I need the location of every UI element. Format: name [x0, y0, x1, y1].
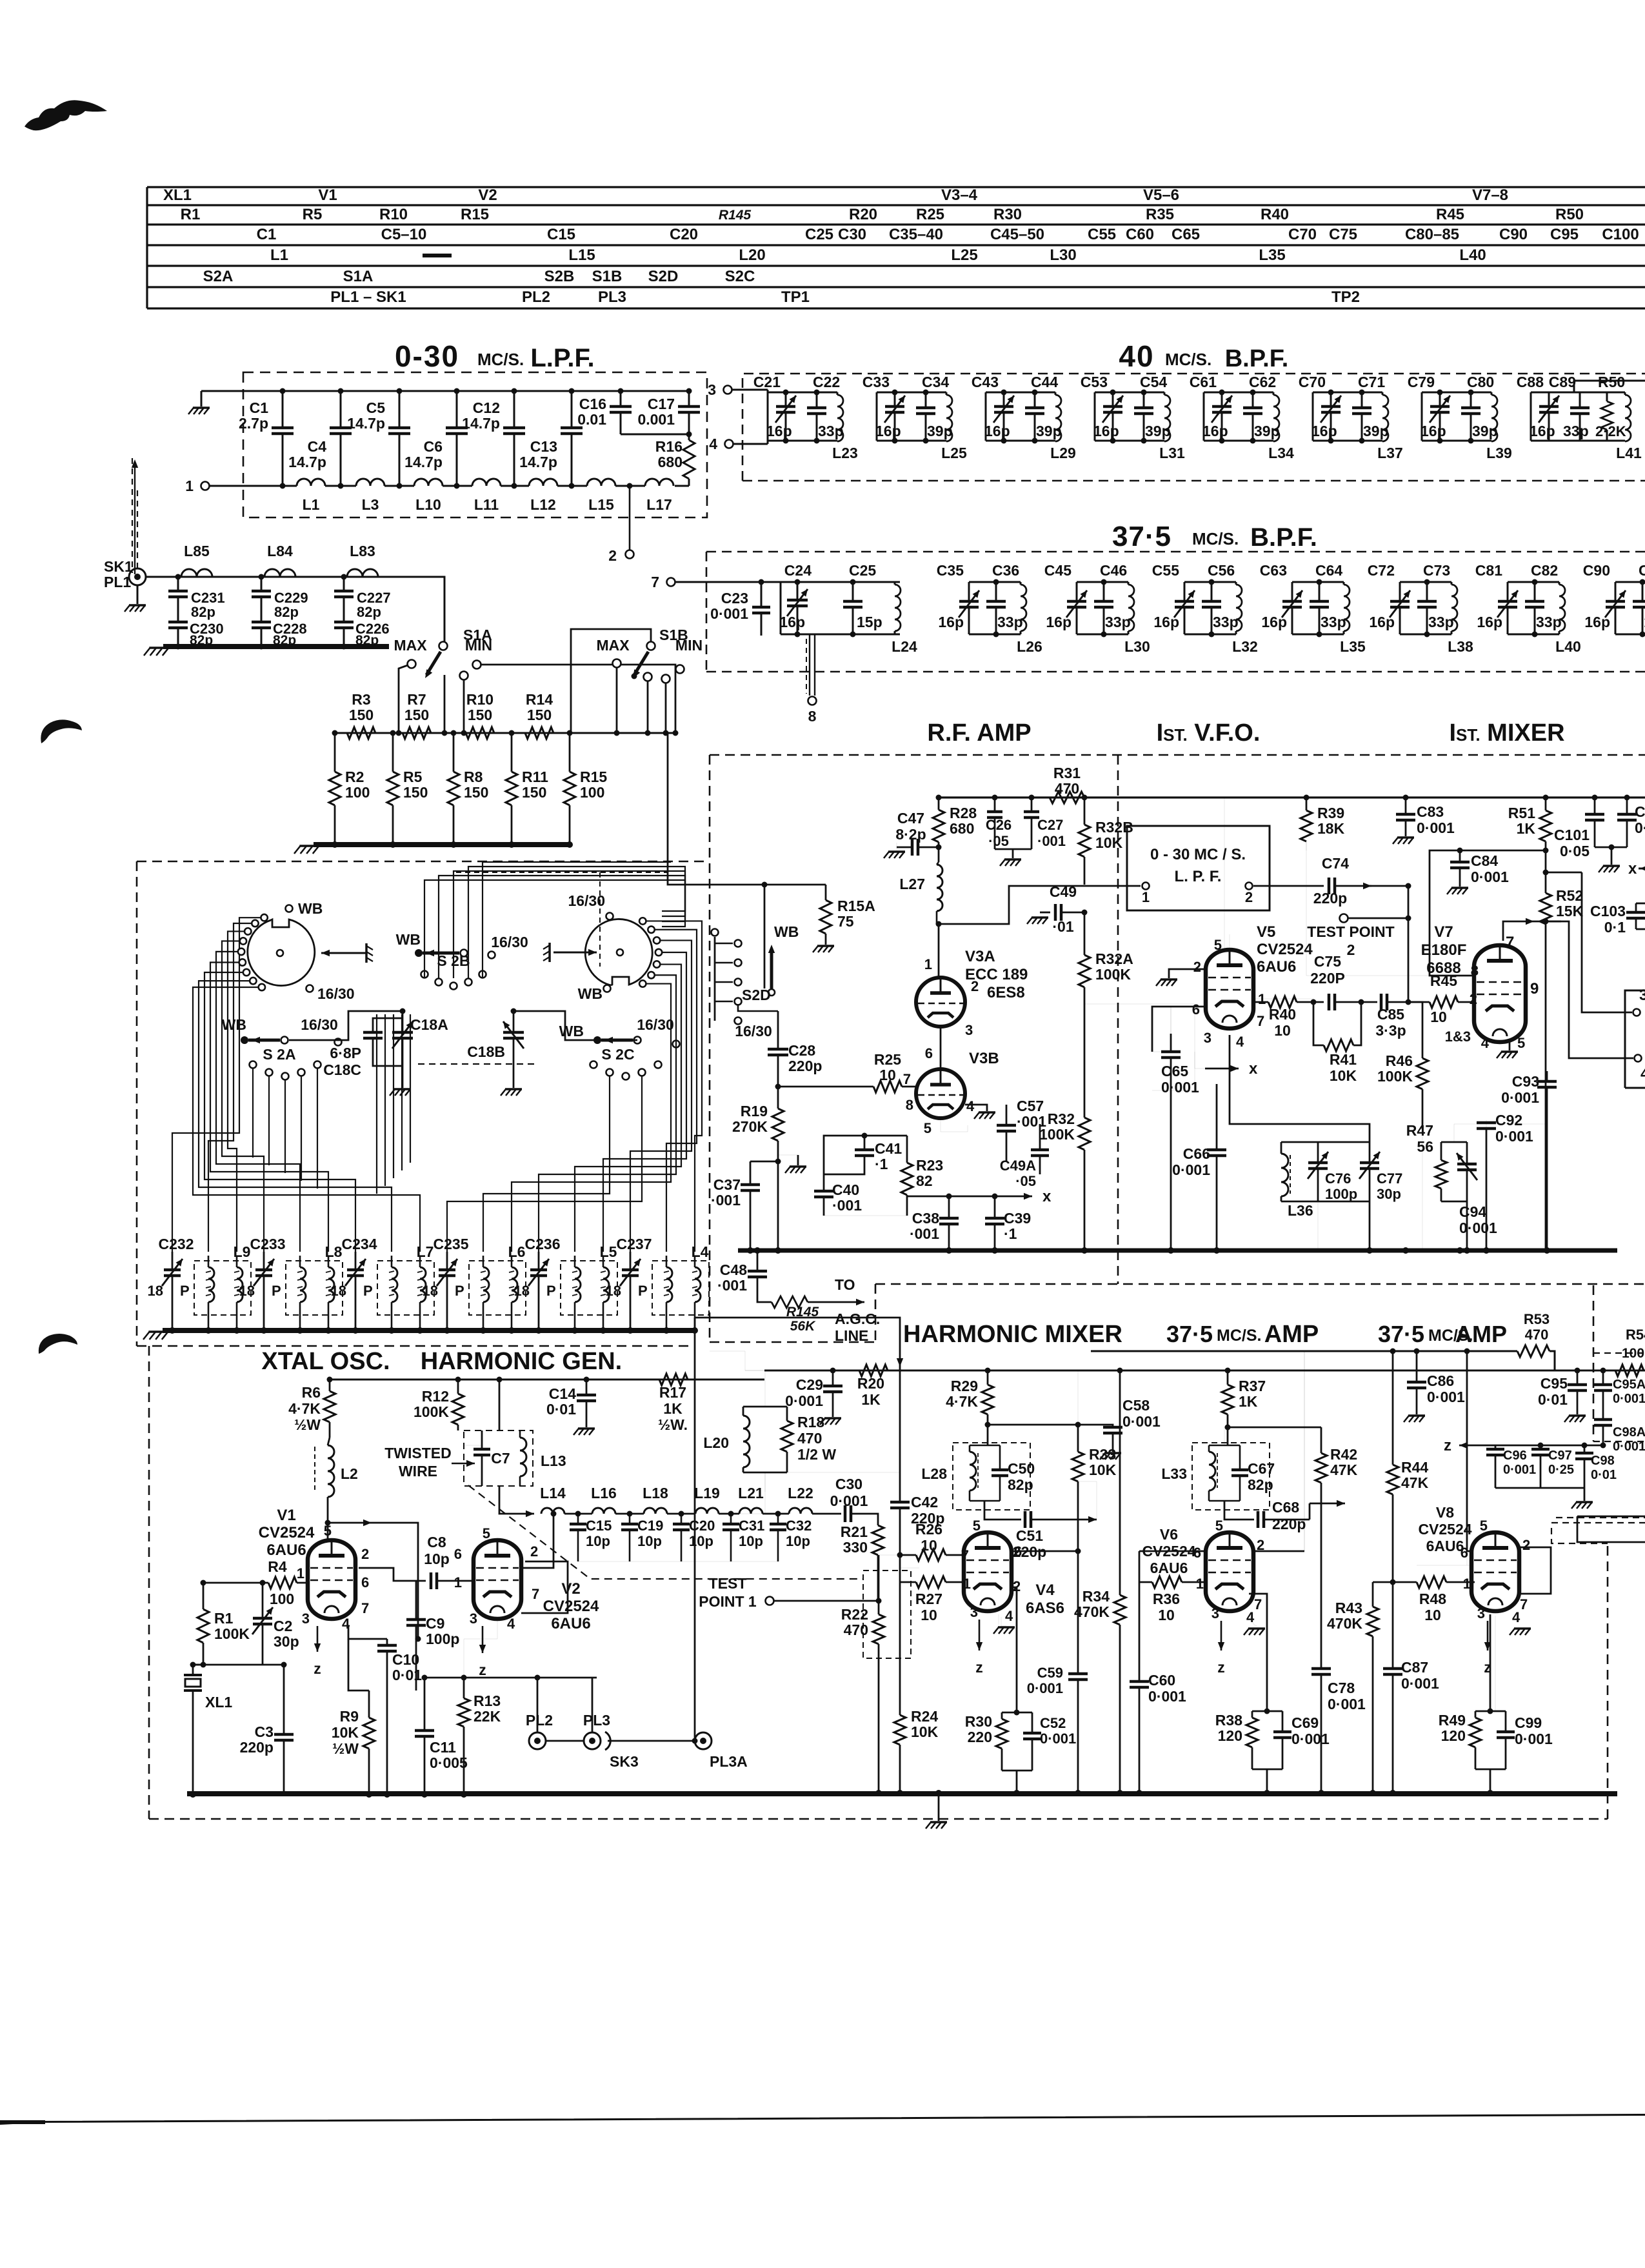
svg-text:E180F: E180F	[1421, 941, 1467, 959]
svg-text:0 - 30 MC / S.: 0 - 30 MC / S.	[1150, 846, 1246, 863]
svg-text:C58: C58	[1122, 1397, 1150, 1414]
svg-text:C51: C51	[1016, 1527, 1043, 1544]
capacitor C95 0.01	[1577, 1370, 1579, 1383]
wire C68 arrow	[1264, 1519, 1310, 1521]
wire R29 to L28 box and C58	[987, 1425, 989, 1445]
svg-text:16p: 16p	[1369, 614, 1395, 630]
svg-text:C49: C49	[1050, 883, 1077, 900]
wire xtal to ground bus	[192, 1736, 194, 1794]
svg-text:L36: L36	[1288, 1202, 1313, 1219]
S1B spare contacts	[644, 673, 652, 681]
svg-text:C88: C88	[1517, 374, 1544, 390]
LPF top bus wire	[201, 390, 689, 392]
svg-text:C35–40: C35–40	[889, 226, 943, 243]
svg-text:37·5: 37·5	[1378, 1321, 1424, 1347]
svg-text:·001: ·001	[832, 1197, 862, 1214]
svg-text:100K: 100K	[1377, 1068, 1413, 1085]
svg-text:150: 150	[404, 707, 429, 723]
svg-text:10: 10	[879, 1067, 896, 1083]
svg-text:ECC 189: ECC 189	[965, 966, 1028, 983]
wire V4 pin2 to R30	[1010, 1587, 1017, 1712]
svg-text:C39: C39	[1004, 1210, 1031, 1227]
capacitor C98A 0.001	[1594, 1418, 1612, 1421]
resistor R16 680	[683, 440, 695, 479]
lower ground bus	[710, 1791, 1617, 1796]
svg-text:330: 330	[843, 1539, 868, 1556]
margin crescent mark 1	[41, 719, 82, 743]
svg-text:6AU6: 6AU6	[1426, 1538, 1464, 1554]
svg-text:C82: C82	[1531, 562, 1558, 579]
trimmer capacitor C234 18P	[355, 1252, 357, 1270]
svg-text:PL2: PL2	[522, 288, 550, 306]
wire V6 pin6 left	[1139, 1550, 1205, 1552]
svg-text:C45–50: C45–50	[990, 226, 1044, 243]
wire V3B grid R25	[902, 1086, 917, 1088]
svg-text:150: 150	[527, 707, 552, 723]
svg-text:10K: 10K	[1330, 1067, 1357, 1084]
resistor R40 10	[1254, 1001, 1268, 1003]
capacitor C29 0.001	[832, 1370, 834, 1385]
svg-text:R30: R30	[993, 206, 1022, 223]
svg-text:9: 9	[1530, 980, 1539, 998]
resistor R32A 100K	[1084, 912, 1086, 955]
svg-text:AMP: AMP	[1455, 1321, 1507, 1347]
37.5MC BPF cell C81/C82/L40	[1508, 581, 1559, 583]
svg-text:C57: C57	[1017, 1098, 1044, 1114]
svg-text:L30: L30	[1124, 638, 1150, 655]
svg-text:C55: C55	[1088, 226, 1116, 243]
svg-text:4: 4	[1640, 1065, 1645, 1083]
svg-text:0·001: 0·001	[1417, 819, 1455, 836]
svg-text:7: 7	[1506, 934, 1514, 951]
svg-text:1: 1	[924, 956, 932, 972]
capacitor C28 220p	[777, 1011, 779, 1048]
svg-text:1: 1	[1196, 1576, 1204, 1592]
svg-text:R15: R15	[461, 206, 489, 223]
svg-text:C50: C50	[1008, 1460, 1035, 1477]
ground left of V5	[1169, 969, 1206, 978]
40MC BPF cell C88/C89/R50/L41	[1531, 392, 1625, 394]
svg-text:C18C: C18C	[323, 1061, 361, 1078]
svg-text:120: 120	[1218, 1727, 1242, 1744]
capacitor C68 220p	[1224, 1501, 1254, 1520]
wideband switch unit dashed enclosure	[137, 861, 707, 863]
svg-text:C4: C4	[308, 438, 327, 455]
trimmer capacitor C233 18P	[263, 1252, 265, 1270]
ground under C95	[1569, 1414, 1586, 1417]
capacitor C92 0.001	[1486, 1120, 1487, 1134]
resistor R41 10K loop	[1313, 1002, 1324, 1045]
tube V8 CV2524 6AU6	[1471, 1532, 1519, 1611]
svg-text:L18: L18	[643, 1485, 668, 1501]
svg-text:TP2: TP2	[1331, 288, 1360, 306]
svg-text:33p: 33p	[1321, 614, 1346, 630]
svg-text:0·001: 0·001	[1501, 1089, 1539, 1106]
wire bundle middle verticals	[376, 1014, 377, 1194]
svg-text:C40: C40	[832, 1181, 859, 1198]
37.5MC BPF cell C55/C56/L32	[1184, 581, 1236, 583]
svg-text:XL1: XL1	[163, 186, 192, 204]
svg-text:R32A: R32A	[1095, 950, 1133, 967]
capacitor C7	[481, 1430, 483, 1448]
capacitor C19 10p	[629, 1514, 631, 1523]
svg-text:C70: C70	[1288, 226, 1317, 243]
svg-text:82p: 82p	[357, 604, 381, 620]
svg-text:10p: 10p	[739, 1533, 763, 1549]
connector PL3A	[695, 1732, 712, 1749]
LPF box terminal 2	[1246, 883, 1253, 890]
svg-text:C32: C32	[786, 1518, 812, 1534]
svg-text:3·3p: 3·3p	[1375, 1022, 1406, 1039]
svg-text:C16: C16	[579, 396, 606, 412]
svg-text:R145: R145	[719, 208, 752, 223]
svg-text:0·001: 0·001	[830, 1492, 868, 1509]
C40/C41/R23 loop wires	[824, 1136, 907, 1174]
svg-text:C81: C81	[1475, 562, 1502, 579]
svg-text:14.7p: 14.7p	[347, 415, 385, 432]
svg-text:C75: C75	[1314, 953, 1341, 970]
inductor L3	[356, 479, 384, 486]
capacitor C23 0.001	[761, 582, 763, 607]
wire hook over last cell	[1574, 381, 1645, 392]
svg-text:5: 5	[973, 1518, 981, 1534]
svg-text:3: 3	[1211, 1605, 1219, 1621]
resistor R3 150	[347, 727, 375, 739]
inductor pair L4 dashed box	[652, 1261, 709, 1315]
svg-text:C65: C65	[1161, 1063, 1188, 1079]
capacitor C10 0.01	[386, 1639, 388, 1644]
svg-text:C93: C93	[1512, 1073, 1539, 1090]
svg-text:C84: C84	[1471, 852, 1498, 869]
tube V4 6AS6	[964, 1532, 1012, 1611]
resistor R29 4.7K	[982, 1385, 993, 1414]
svg-text:C49A: C49A	[1000, 1158, 1036, 1174]
svg-text:C67: C67	[1248, 1460, 1275, 1477]
wire S1B to BPF feed	[667, 733, 669, 859]
resistor R7 150	[403, 727, 431, 739]
svg-text:C3: C3	[255, 1723, 274, 1740]
svg-text:L17: L17	[646, 496, 672, 513]
svg-text:L10: L10	[415, 496, 441, 513]
svg-text:PL1: PL1	[104, 574, 131, 590]
resistor R23 82	[906, 1136, 908, 1163]
resistor R15 100	[569, 733, 571, 772]
wire	[675, 485, 689, 487]
svg-text:8: 8	[906, 1097, 913, 1113]
capacitor C5 14.7p	[399, 391, 401, 428]
37.5 BPF first cell C24/C25/L24	[781, 581, 900, 583]
svg-text:V6: V6	[1160, 1526, 1178, 1543]
capacitor C16 0.01	[620, 391, 622, 406]
L33 C67 dashed box	[1192, 1443, 1270, 1510]
svg-text:S2D: S2D	[648, 268, 679, 285]
svg-text:L41: L41	[1616, 445, 1642, 461]
svg-text:10p: 10p	[786, 1533, 810, 1549]
svg-text:C63: C63	[1260, 562, 1287, 579]
svg-text:100K: 100K	[1095, 966, 1131, 983]
svg-text:0·001: 0·001	[1401, 1675, 1439, 1692]
svg-text:C236: C236	[525, 1236, 561, 1252]
svg-text:L5: L5	[600, 1243, 617, 1260]
svg-text:·05: ·05	[1015, 1173, 1036, 1189]
rotary switch wafer 2 (16/30-WB)	[585, 919, 652, 985]
svg-text:1: 1	[454, 1574, 462, 1591]
wire C28 top to S2D wire	[738, 1004, 778, 1011]
resistor R17 1K 1/2W in rail	[659, 1374, 688, 1385]
svg-text:220p: 220p	[1272, 1516, 1306, 1532]
V8 cathode R49/C99	[1495, 1616, 1496, 1711]
capacitor C42 220p	[899, 1370, 901, 1381]
crystal XL1	[192, 1665, 194, 1675]
svg-text:150: 150	[403, 784, 428, 801]
svg-text:2: 2	[608, 547, 617, 564]
resistor R25 10	[873, 1081, 902, 1092]
svg-text:10: 10	[921, 1537, 937, 1554]
svg-text:C30: C30	[835, 1476, 862, 1492]
svg-text:C62: C62	[1249, 374, 1276, 390]
svg-text:L22: L22	[788, 1485, 813, 1501]
capacitor C65 0.001	[1170, 1007, 1171, 1049]
svg-text:C41: C41	[875, 1140, 902, 1157]
wire rail to C7 box	[499, 1380, 501, 1430]
harmonic rail	[764, 1370, 1645, 1372]
svg-text:C15: C15	[547, 226, 575, 243]
svg-text:16p: 16p	[984, 423, 1010, 439]
resistor R46 100K	[1422, 1045, 1424, 1058]
svg-text:C15: C15	[586, 1518, 612, 1534]
svg-text:18: 18	[331, 1283, 346, 1299]
ground under C83	[1397, 836, 1414, 839]
svg-text:4: 4	[507, 1616, 515, 1632]
resistor R20 1K in rail	[859, 1365, 888, 1376]
wafer2 WB contact	[604, 985, 611, 992]
svg-text:V8: V8	[1436, 1504, 1454, 1521]
xtal section ground bus	[187, 1791, 711, 1796]
row2 WB arrow left (S2A)	[241, 1036, 248, 1044]
svg-text:3: 3	[302, 1611, 310, 1627]
capacitor C48 .001	[757, 1250, 759, 1270]
svg-text:R10: R10	[466, 691, 494, 708]
svg-text:8: 8	[808, 708, 817, 725]
svg-text:2: 2	[361, 1546, 369, 1562]
inductor L83	[347, 569, 378, 577]
svg-text:10p: 10p	[586, 1533, 610, 1549]
svg-text:6: 6	[1192, 1001, 1200, 1018]
wafer1 16/30 contact	[306, 985, 314, 992]
svg-text:MC/S.: MC/S.	[1217, 1327, 1261, 1345]
wire V5 plate right	[1254, 999, 1313, 1002]
svg-text:0·01: 0·01	[546, 1401, 576, 1418]
svg-text:30p: 30p	[274, 1633, 299, 1650]
svg-text:R1: R1	[214, 1610, 234, 1627]
svg-text:A.G.C.: A.G.C.	[835, 1310, 880, 1327]
svg-text:16p: 16p	[1093, 423, 1119, 439]
svg-text:1: 1	[1142, 889, 1150, 905]
svg-text:2.7p: 2.7p	[239, 415, 268, 432]
svg-text:C17: C17	[648, 396, 675, 412]
resistor R2 100	[334, 733, 336, 772]
output twisted pair dashes	[1551, 1522, 1645, 1523]
svg-text:5: 5	[324, 1523, 332, 1539]
wire C85 to R45	[1387, 1001, 1430, 1003]
svg-text:P: P	[455, 1283, 464, 1299]
unit enclosure dashed bottom xtal	[137, 1345, 695, 1347]
wire V1 pin7/C10 node	[348, 1639, 369, 1691]
x arrow cathode	[949, 1196, 995, 1198]
twisted pair to terminal 8	[809, 634, 810, 696]
capacitor C96 0.001	[1495, 1445, 1497, 1448]
svg-text:S2B: S2B	[544, 268, 575, 285]
svg-text:C73: C73	[1423, 562, 1450, 579]
capacitor C6 14.7p	[456, 391, 458, 428]
svg-text:47K: 47K	[1330, 1461, 1358, 1478]
inductor pair L5 dashed box	[561, 1261, 617, 1315]
svg-text:10: 10	[1158, 1607, 1175, 1623]
svg-text:L34: L34	[1268, 445, 1294, 461]
svg-text:33p: 33p	[1213, 614, 1239, 630]
svg-text:·001: ·001	[711, 1192, 741, 1209]
capacitor C26 .05	[994, 798, 996, 810]
svg-text:33p: 33p	[1428, 614, 1454, 630]
reference box 0-30 MC/S LPF	[1127, 826, 1270, 910]
svg-text:L2: L2	[341, 1465, 358, 1482]
svg-text:100p: 100p	[1325, 1186, 1357, 1202]
wire to 2nd mixer terminal 3	[1582, 872, 1632, 1012]
svg-text:6688: 6688	[1426, 959, 1461, 977]
margin crescent mark 2	[39, 1334, 77, 1354]
svg-text:L1: L1	[270, 246, 288, 264]
svg-text:2: 2	[1347, 941, 1355, 958]
capacitor C57 .001	[1006, 1105, 1008, 1124]
wire R39 down	[1306, 841, 1430, 976]
wire PL2 to PL3	[546, 1740, 584, 1742]
antenna input dashed lead	[132, 458, 133, 573]
svg-text:½W: ½W	[332, 1740, 359, 1757]
resistor R32 100K	[1084, 1004, 1086, 1118]
trimmer capacitor C235 18P	[446, 1252, 448, 1270]
svg-text:C64: C64	[1315, 562, 1342, 579]
resistor R51 1K	[1545, 798, 1547, 810]
svg-text:15p: 15p	[857, 614, 882, 630]
V6 z arrow	[1221, 1621, 1222, 1651]
svg-text:C79: C79	[1408, 374, 1435, 390]
wire C84 to V7 pin8	[1430, 850, 1476, 976]
svg-text:1K: 1K	[861, 1391, 881, 1408]
svg-text:680: 680	[658, 454, 683, 470]
svg-text:16p: 16p	[1153, 614, 1179, 630]
svg-text:39p: 39p	[1472, 423, 1498, 439]
svg-text:C74: C74	[1322, 855, 1349, 872]
inductor L21	[739, 1508, 763, 1514]
svg-text:C9: C9	[426, 1615, 444, 1632]
inductor pair L9 dashed box	[194, 1261, 251, 1315]
inductor L12	[529, 479, 557, 486]
svg-text:C235: C235	[434, 1236, 469, 1252]
svg-text:C96: C96	[1503, 1449, 1527, 1463]
svg-text:100K: 100K	[414, 1403, 449, 1420]
wire C84 to R51/R52	[1460, 850, 1546, 862]
resistor R145 56K to AGC	[757, 1297, 772, 1302]
capacitor C84 0.001	[1459, 861, 1461, 875]
svg-text:½W: ½W	[294, 1416, 321, 1433]
wire plate node to LPF box input	[939, 886, 1141, 924]
svg-text:R45: R45	[1436, 206, 1464, 223]
svg-text:R3: R3	[352, 691, 370, 708]
resistor R27 10	[900, 1581, 916, 1583]
svg-text:18: 18	[239, 1283, 255, 1299]
svg-text:R39: R39	[1317, 805, 1344, 821]
V8 z arrow	[1487, 1621, 1489, 1651]
svg-text:C25: C25	[849, 562, 876, 579]
svg-text:6AU6: 6AU6	[266, 1541, 306, 1559]
svg-text:18: 18	[514, 1283, 530, 1299]
svg-text:16p: 16p	[1202, 423, 1228, 439]
resistor R48 10	[1393, 1581, 1417, 1583]
svg-text:30p: 30p	[1377, 1186, 1401, 1202]
L28 C50 dashed box	[953, 1443, 1030, 1510]
svg-text:R38: R38	[1215, 1712, 1242, 1729]
svg-text:C71: C71	[1358, 374, 1385, 390]
svg-text:C26: C26	[986, 817, 1012, 833]
svg-text:7: 7	[903, 1071, 911, 1087]
svg-text:5: 5	[483, 1525, 490, 1541]
wire V2 plate to chain	[521, 1514, 553, 1568]
svg-text:L84: L84	[267, 543, 293, 559]
svg-text:R51: R51	[1508, 805, 1535, 821]
svg-text:1: 1	[1258, 991, 1266, 1007]
svg-text:22K: 22K	[474, 1708, 501, 1725]
V3B cathode network wires	[941, 1118, 968, 1132]
arrow xtal harmonic out	[325, 1520, 331, 1526]
tube V1 CV2524 6AU6	[308, 1540, 355, 1619]
svg-text:L39: L39	[1486, 445, 1512, 461]
svg-text:MAX: MAX	[596, 637, 630, 654]
svg-text:V2: V2	[478, 186, 497, 204]
svg-text:C36: C36	[992, 562, 1019, 579]
resistor R4 100	[250, 1582, 268, 1584]
svg-text:C38: C38	[912, 1210, 939, 1227]
capacitor C4 14.7p	[340, 391, 342, 428]
svg-text:CV2524: CV2524	[1418, 1521, 1471, 1538]
svg-text:SK3: SK3	[610, 1753, 639, 1770]
svg-text:L29: L29	[1050, 445, 1076, 461]
inductor L15	[587, 479, 615, 486]
40MC BPF cell C70/C71/L37	[1313, 392, 1382, 394]
svg-text:C80: C80	[1467, 374, 1494, 390]
wire	[384, 485, 414, 487]
capacitor C30 0.001	[812, 1513, 841, 1515]
wire R40 to C75	[1297, 1001, 1324, 1003]
svg-text:R37: R37	[1239, 1378, 1266, 1394]
svg-text:0·005: 0·005	[430, 1754, 468, 1771]
svg-text:0·01: 0·01	[1591, 1468, 1617, 1482]
svg-text:C53: C53	[1081, 374, 1108, 390]
svg-text:220p: 220p	[1013, 1543, 1046, 1560]
svg-text:2: 2	[1245, 889, 1253, 905]
wire LPF output to terminal 2	[629, 486, 631, 550]
wire V8 pin2 loop	[1520, 1547, 1551, 1594]
svg-text:R49: R49	[1439, 1712, 1466, 1729]
svg-text:R54: R54	[1626, 1327, 1645, 1343]
wire R29 node	[987, 1370, 989, 1385]
svg-text:33p: 33p	[818, 423, 844, 439]
capacitor C20 10p	[681, 1514, 683, 1523]
svg-text:WB: WB	[578, 985, 603, 1002]
inductor L20 with R18	[743, 1416, 750, 1467]
svg-text:CV2524: CV2524	[1257, 941, 1313, 958]
svg-text:C44: C44	[1031, 374, 1058, 390]
LPF dashed enclosure	[243, 372, 707, 517]
